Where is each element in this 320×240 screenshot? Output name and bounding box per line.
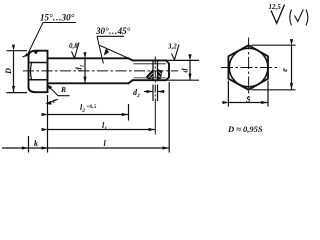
svg-text:D ≈ 0,95S: D ≈ 0,95S <box>227 124 263 134</box>
bottom line k segment <box>29 147 48 149</box>
hex center lines <box>221 67 277 69</box>
roughness 3,2 at thread <box>172 45 180 60</box>
dimension e extension lines <box>252 45 296 90</box>
svg-text:c: c <box>53 96 57 105</box>
dimension S line <box>229 102 268 104</box>
dimension l line <box>48 147 169 149</box>
dimension S extension lines <box>228 81 268 107</box>
label 15..30 leader <box>23 23 77 58</box>
svg-text:30°…45°: 30°…45° <box>95 26 131 36</box>
cotter pin hole edges <box>153 61 158 80</box>
shank <box>48 58 129 83</box>
dimension d2 arrows <box>144 91 153 93</box>
bearing face extension line <box>47 95 49 153</box>
head left extension line <box>28 136 30 153</box>
svg-text:S: S <box>246 95 251 104</box>
svg-text:3,2: 3,2 <box>167 43 177 51</box>
dimension D line <box>13 51 15 92</box>
label c (chamfer) leader <box>47 99 58 103</box>
dimension l1 line <box>48 129 155 131</box>
roughness 0,8 on shank <box>72 43 80 59</box>
svg-text:0,8: 0,8 <box>69 42 78 50</box>
svg-text:l2 +0,5: l2 +0,5 <box>80 103 97 114</box>
hexagon <box>228 45 268 90</box>
l2 extension line <box>128 104 130 121</box>
svg-text:k: k <box>34 139 38 148</box>
dimension d extension lines <box>167 60 199 80</box>
dimension d2 extension lines <box>153 85 158 102</box>
roughness 12,5 (√) general note <box>271 5 285 24</box>
tip extension line <box>168 82 170 153</box>
30..45 leader arrow <box>104 48 109 56</box>
dimension D extension lines <box>7 51 28 93</box>
svg-text:d1: d1 <box>74 64 85 71</box>
svg-text:l: l <box>104 139 107 148</box>
middle facet arc <box>30 63 31 80</box>
svg-text:d: d <box>181 68 190 73</box>
bolt tip chamfer and end face <box>166 60 169 80</box>
dimension e line <box>291 46 293 90</box>
svg-text:D: D <box>4 68 13 75</box>
label R leader <box>48 86 69 96</box>
thread runout taper <box>129 58 133 83</box>
hex head side view outline <box>29 51 48 92</box>
dimension l2+0,5 line <box>48 114 128 116</box>
dimension d line <box>189 61 191 80</box>
dimension k outside arrow <box>2 147 28 149</box>
15..30 angle arrows <box>25 50 39 57</box>
svg-text:12,5: 12,5 <box>269 3 282 11</box>
hole centerline <box>154 57 156 101</box>
head chamfer arcs <box>29 51 36 92</box>
svg-text:d2: d2 <box>133 88 140 99</box>
thread minor diameter thin lines <box>134 64 166 78</box>
chamfer circle <box>229 48 268 87</box>
svg-text:R: R <box>60 85 66 94</box>
bolt axis centerline <box>23 70 178 72</box>
threaded section major diameter <box>133 60 167 80</box>
dimension d1 line <box>84 59 86 83</box>
hole local section hatching <box>146 69 163 79</box>
svg-text:l1: l1 <box>102 121 107 132</box>
head facet lines <box>29 63 48 80</box>
svg-text:15°…30°: 15°…30° <box>40 13 75 23</box>
svg-text:e: e <box>280 68 289 72</box>
label 30..45 leader <box>97 36 129 63</box>
